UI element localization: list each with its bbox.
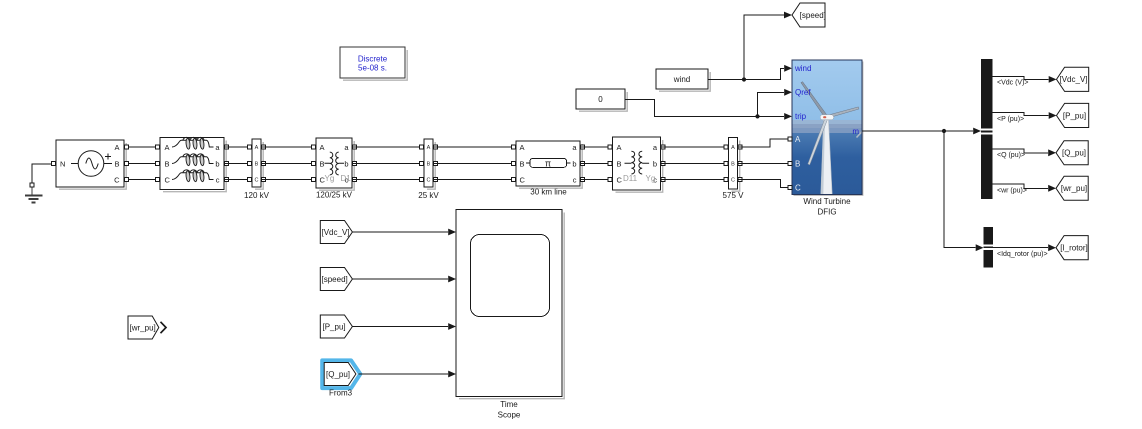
svg-text:m: m	[852, 127, 859, 136]
svg-text:Wind Turbine: Wind Turbine	[803, 197, 851, 206]
wire from Vdc_V to scope	[352, 231, 448, 233]
svg-text:[Vdc_V]: [Vdc_V]	[1059, 75, 1087, 84]
svg-text:<Q (pu)>: <Q (pu)>	[997, 152, 1025, 159]
svg-text:A: A	[617, 143, 622, 152]
T1 port squares right	[352, 145, 356, 149]
wire T1 to bus B2 row A	[352, 146, 424, 148]
goto tag I_rotor	[1056, 236, 1088, 260]
voltage source leads	[71, 163, 78, 165]
svg-text:120/25 kV: 120/25 kV	[316, 191, 353, 200]
wind turbine DFIG block shadow	[794, 62, 863, 196]
constant block 0 body	[576, 89, 625, 109]
svg-text:B: B	[520, 159, 525, 168]
turbine blade up-left	[801, 82, 827, 118]
svg-text:<P (pu)>: <P (pu)>	[997, 116, 1024, 123]
arrowhead into turbine wind port	[784, 65, 792, 72]
svg-text:<Idq_rotor (pu)>: <Idq_rotor (pu)>	[997, 251, 1048, 258]
wire source A to RLC	[124, 146, 160, 148]
svg-text:b: b	[344, 159, 348, 168]
svg-text:trip: trip	[795, 112, 807, 121]
svg-text:b: b	[215, 159, 219, 168]
voltage source plus sign	[105, 154, 111, 160]
svg-text:B: B	[320, 159, 325, 168]
T1 secondary winding	[336, 152, 344, 175]
from tag speed	[320, 268, 352, 291]
port squares source right	[124, 145, 128, 149]
line block pi section	[526, 162, 530, 164]
arrowhead into goto wr_pu	[1048, 185, 1056, 192]
svg-text:575 V: 575 V	[723, 191, 745, 200]
wire selector out Q	[993, 149, 1049, 153]
wire junction up to goto speed	[744, 15, 784, 80]
turbine blade down-left	[808, 118, 828, 165]
svg-text:D1: D1	[341, 174, 352, 183]
svg-text:120 kV: 120 kV	[244, 191, 270, 200]
ground	[25, 187, 43, 203]
wire bus B3 to turbine C with jog	[738, 180, 793, 188]
wire bus B2 to line block row C	[433, 179, 516, 181]
powergui block shadow	[343, 50, 407, 80]
bus B3 575 V body	[729, 138, 738, 190]
svg-text:b: b	[653, 159, 657, 168]
bus B1 port squares	[247, 145, 251, 149]
wire bus B1 to transformer T1 row C	[261, 179, 316, 181]
transformer T1 120/25 kV shadow	[319, 141, 354, 190]
svg-text:<Vdc (V)>: <Vdc (V)>	[997, 80, 1029, 87]
bus B3 575 V shadow	[732, 141, 740, 192]
svg-text:Time: Time	[500, 400, 518, 409]
svg-text:A: A	[255, 145, 259, 151]
RLC port squares left	[155, 145, 159, 149]
svg-text:C: C	[520, 176, 526, 185]
svg-text:B: B	[427, 162, 431, 168]
wire from Q_pu to scope	[359, 373, 449, 375]
goto tag Q_pu	[1056, 141, 1088, 165]
wire 0 const to trip	[625, 99, 784, 116]
powergui block body	[340, 47, 405, 78]
svg-text:DFIG: DFIG	[817, 208, 836, 217]
transformer T2 D11/Yg body	[613, 137, 661, 190]
svg-text:[wr_pu]: [wr_pu]	[130, 323, 156, 332]
svg-text:B: B	[795, 159, 800, 168]
wire T2 to bus B3 row B	[661, 163, 729, 165]
wire from P_pu to scope	[352, 326, 448, 328]
svg-text:25 kV: 25 kV	[418, 191, 439, 200]
RLC inductor row C	[172, 170, 214, 182]
svg-text:[P_pu]: [P_pu]	[323, 322, 346, 331]
junction trip-Qref	[755, 114, 759, 118]
port square N	[51, 161, 55, 165]
svg-text:<wr (pu)>: <wr (pu)>	[997, 187, 1027, 194]
svg-text:A: A	[520, 143, 525, 152]
turbine port squares on top	[788, 137, 792, 141]
wire selector out Vdc	[993, 77, 1049, 80]
svg-text:[Q_pu]: [Q_pu]	[1062, 149, 1086, 158]
bus B1 120 kV body	[252, 139, 261, 187]
svg-text:[Vdc_V]: [Vdc_V]	[322, 228, 350, 237]
svg-text:A: A	[320, 143, 325, 152]
three-phase RLC branch block shadow	[163, 141, 226, 192]
wire selector 2 out I_rotor	[993, 247, 1048, 249]
wire selector out wr	[993, 184, 1049, 188]
svg-text:B: B	[165, 159, 170, 168]
bus B2 port squares	[419, 145, 423, 149]
svg-text:C: C	[165, 176, 171, 185]
bus selector 1 icon stripes	[981, 129, 993, 131]
voltage source circle	[78, 151, 104, 177]
wire line block to transformer T2 row B	[580, 163, 613, 165]
bus B2 25 kV body	[424, 139, 433, 187]
T1 primary winding	[325, 152, 333, 175]
turbine nacelle hub	[820, 115, 833, 120]
T2 port squares left	[608, 145, 612, 149]
svg-text:Discrete: Discrete	[358, 55, 388, 64]
svg-text:N: N	[60, 159, 65, 168]
arrowhead into bus selector 1	[973, 128, 981, 135]
wire RLC a to bus B1	[224, 146, 252, 148]
transformer T1 120/25 kV body	[316, 138, 352, 188]
wire m to bus selector 1	[862, 130, 973, 132]
svg-text:[speed]: [speed]	[800, 11, 826, 20]
goto tag Vdc_V	[1057, 67, 1089, 91]
arrowhead into trip	[784, 113, 792, 120]
from tag wr_pu unconnected	[128, 316, 159, 339]
constant block wind shadow	[659, 72, 710, 91]
svg-text:C: C	[427, 178, 431, 184]
T2 port squares right	[661, 145, 665, 149]
svg-text:C: C	[114, 176, 120, 185]
svg-text:0: 0	[598, 95, 603, 104]
from tag Vdc_V	[320, 221, 352, 244]
svg-text:b: b	[572, 159, 576, 168]
T2 secondary winding	[639, 151, 649, 174]
arrowhead into goto I_rotor	[1048, 244, 1056, 251]
bus selector 1 body	[981, 59, 993, 199]
wire bus B2 to line block row A	[433, 146, 516, 148]
svg-text:[speed]: [speed]	[322, 275, 348, 284]
svg-text:C: C	[617, 176, 623, 185]
constant block wind body	[656, 69, 708, 89]
arrowhead into Qref	[784, 89, 792, 96]
T1 port squares left	[311, 145, 315, 149]
svg-text:A: A	[795, 135, 801, 144]
arrowhead into goto P_pu	[1049, 112, 1057, 119]
svg-text:Qref: Qref	[795, 88, 811, 97]
svg-text:B: B	[255, 162, 259, 168]
turbine blade right	[827, 107, 859, 118]
bus B2 25 kV shadow	[427, 142, 435, 189]
svg-text:B: B	[114, 159, 119, 168]
line block port squares left	[511, 145, 515, 149]
svg-text:C: C	[255, 178, 259, 184]
from tag P_pu	[320, 315, 352, 338]
svg-text:A: A	[114, 143, 119, 152]
svg-text:A: A	[165, 143, 170, 152]
svg-text:wind: wind	[673, 75, 690, 84]
three-phase RLC branch block body	[160, 138, 224, 190]
wire RLC c to bus B1	[224, 179, 252, 181]
junction m	[942, 129, 946, 133]
svg-text:B: B	[617, 159, 622, 168]
voltage source block body	[56, 140, 124, 187]
goto tag speed	[792, 3, 825, 27]
svg-text:c: c	[573, 176, 577, 185]
svg-text:wind: wind	[794, 64, 811, 73]
RLC inductor row A	[172, 137, 214, 149]
wire selector out P	[993, 113, 1049, 116]
wire bus B2 to line block row B	[433, 163, 516, 165]
from tag Q_pu	[324, 363, 356, 386]
arrowhead into goto speed	[784, 12, 792, 19]
distant shore haze	[792, 120, 862, 125]
wire source C to RLC	[124, 179, 160, 181]
voltage source sine	[86, 158, 98, 169]
wire wind const to turbine wind port	[708, 68, 784, 79]
wire T2 to bus B3 row C	[661, 179, 729, 181]
wire bus B3 to turbine A with jog	[738, 139, 793, 147]
arrowhead into goto Vdc_V	[1049, 76, 1057, 83]
bus B3 port squares	[724, 145, 728, 149]
svg-text:From3: From3	[329, 389, 353, 398]
svg-text:[P_pu]: [P_pu]	[1063, 111, 1086, 120]
arrowhead into bus selector 2	[976, 244, 984, 251]
scope block body	[456, 210, 562, 397]
svg-text:[I_rotor]: [I_rotor]	[1060, 244, 1088, 253]
svg-text:A: A	[427, 145, 431, 151]
svg-text:Scope: Scope	[498, 411, 521, 420]
wire junction up to Qref	[758, 92, 785, 116]
constant block 0 shadow	[579, 92, 627, 111]
svg-text:Yg: Yg	[325, 174, 335, 183]
transformer T2 D11/Yg shadow	[616, 140, 663, 192]
wire bus B3 to turbine B	[738, 163, 793, 165]
goto tag wr_pu	[1056, 176, 1088, 200]
RLC port squares right	[224, 145, 228, 149]
svg-text:30 km line: 30 km line	[530, 188, 567, 197]
wire ground to N	[32, 164, 53, 184]
bus selector 2 icon stripes	[984, 245, 994, 247]
wire source B to RLC	[124, 163, 160, 165]
30 km line block shadow	[519, 144, 582, 188]
unconnected chevron	[161, 322, 167, 333]
arrowhead into goto Q_pu	[1048, 149, 1056, 156]
ground port square	[30, 183, 34, 187]
svg-text:B: B	[731, 162, 735, 168]
scope block shadow	[459, 213, 564, 399]
bus B1 120 kV shadow	[255, 142, 263, 189]
wire bus B1 to transformer T1 row A	[261, 146, 316, 148]
line block port squares right	[580, 145, 584, 149]
wire RLC b to bus B1	[224, 163, 252, 165]
from tag Q_pu selection halo	[322, 360, 360, 388]
goto tag P_pu	[1057, 103, 1089, 127]
scope screen	[471, 235, 550, 317]
wire junction down to bus selector 2	[944, 131, 976, 248]
turbine tower	[821, 119, 832, 195]
wire line block to transformer T2 row A	[580, 146, 613, 148]
wind turbine DFIG block picture	[792, 60, 863, 195]
svg-text:C: C	[731, 178, 735, 184]
voltage source block shadow	[59, 143, 126, 189]
svg-text:π: π	[545, 159, 551, 169]
bus selector 2 body	[984, 227, 994, 268]
wire bus B1 to transformer T1 row B	[261, 163, 316, 165]
svg-text:D11: D11	[623, 174, 638, 183]
wire T1 to bus B2 row B	[352, 163, 424, 165]
svg-text:C: C	[795, 183, 801, 192]
30 km line block body	[516, 141, 580, 186]
svg-text:[Q_pu]: [Q_pu]	[326, 370, 350, 379]
svg-text:A: A	[731, 145, 735, 151]
T2 primary winding	[625, 151, 635, 174]
wire line block to transformer T2 row C	[580, 179, 613, 181]
turbine tower left shading	[821, 119, 825, 195]
distant turbine at right edge	[857, 131, 863, 138]
svg-text:c: c	[216, 176, 220, 185]
RLC inductor row B	[172, 154, 214, 166]
wire from speed to scope	[352, 278, 448, 280]
wire T2 to bus B3 row A	[661, 146, 729, 148]
svg-text:[wr_pu]: [wr_pu]	[1061, 184, 1087, 193]
svg-text:Yg: Yg	[646, 174, 656, 183]
junction speed	[742, 77, 746, 81]
svg-text:5e-08 s.: 5e-08 s.	[358, 64, 387, 73]
wire T1 to bus B2 row C	[352, 179, 424, 181]
